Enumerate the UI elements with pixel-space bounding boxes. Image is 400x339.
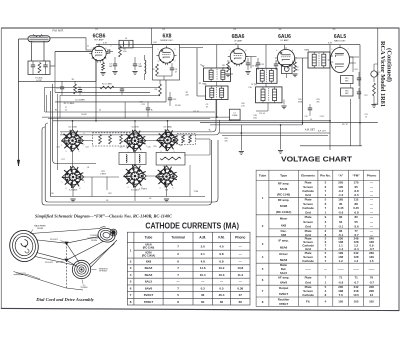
svg-text:C1: C1 (87, 46, 89, 48)
svg-text:2: 2 (276, 61, 277, 63)
svg-text:T3: T3 (202, 84, 204, 86)
svg-text:2: 2 (230, 61, 231, 63)
svg-text:47: 47 (206, 106, 208, 108)
wire socket links (196, 138, 211, 140)
resistor R18 (373, 83, 376, 96)
tube V3 6BA6 (230, 49, 246, 65)
cathode currents body text (130, 244, 244, 304)
wire v x151.5 (151, 29, 153, 45)
svg-text:V-3 6BA6: V-3 6BA6 (163, 126, 172, 129)
svg-text:3: 3 (128, 152, 129, 154)
wire v x125 (124, 102, 126, 119)
svg-text:7: 7 (348, 49, 349, 51)
cap at 122 (120, 88, 124, 90)
wire y92 (55, 91, 150, 93)
svg-text:2: 2 (61, 133, 62, 135)
V2 shield box (153, 45, 180, 81)
svg-text:Output: Output (279, 286, 289, 290)
svg-text:R19: R19 (153, 146, 156, 148)
cap under bus 2 (308, 107, 312, 109)
svg-text:C13 .02: C13 .02 (193, 111, 199, 113)
resistor R8 (227, 62, 230, 72)
svg-text:5: 5 (142, 152, 143, 154)
svg-text:Dial Cord and Drive Assembly: Dial Cord and Drive Assembly (35, 297, 94, 302)
svg-text:—: — (239, 260, 242, 264)
svg-text:R.F. AMP: R.F. AMP (94, 39, 104, 42)
capacitor C5 cluster (60, 86, 64, 88)
wire V4 top (284, 45, 286, 50)
wire y145.8 (300, 145, 362, 147)
svg-text:Phono: Phono (235, 236, 245, 240)
svg-text:6CB6: 6CB6 (280, 204, 288, 208)
bus line y134.9 (60, 134, 215, 136)
svg-text:PULLEYS: PULLEYS (16, 273, 26, 275)
svg-text:80: 80 (354, 215, 358, 219)
svg-text:Simplified Schematic Diagram—“: Simplified Schematic Diagram—“FM”—Chassi… (35, 213, 172, 218)
svg-text:6AV6: 6AV6 (145, 286, 153, 290)
ground below R3 (100, 72, 105, 74)
svg-text:6AU6: 6AU6 (278, 34, 291, 40)
tuning shaft line (65, 243, 67, 288)
svg-text:C19 2: C19 2 (320, 116, 325, 118)
svg-text:—: — (177, 280, 180, 284)
svg-text:Plate: Plate (305, 198, 312, 202)
svg-text:4.8: 4.8 (201, 260, 206, 264)
svg-text:——: —— (353, 267, 359, 271)
svg-text:—: — (201, 280, 204, 284)
bus y132 rounded (42, 127, 212, 205)
svg-text:RCA Victor Model 1R81: RCA Victor Model 1R81 (379, 41, 386, 107)
svg-text:VOLTAGE CHART: VOLTAGE CHART (281, 155, 352, 164)
tube V5 6AL5 envelope (330, 48, 349, 73)
svg-text:C6: C6 (99, 110, 101, 112)
svg-text:C27: C27 (61, 159, 64, 161)
svg-text:—: — (370, 211, 373, 215)
dial cord run 4 (35, 257, 77, 266)
wire T5 down (267, 103, 269, 111)
ground x241 (240, 125, 242, 151)
bus y135 (45, 123, 218, 202)
ratio det transformer T6 (308, 52, 330, 68)
page frame right border (398, 28, 400, 311)
resistor R1A (38, 63, 41, 74)
svg-text:(RC-1140): (RC-1140) (143, 246, 155, 249)
svg-text:55: 55 (354, 220, 358, 224)
svg-text:R3 1.5 MEG: R3 1.5 MEG (64, 103, 75, 105)
svg-text:6AV6: 6AV6 (280, 281, 287, 285)
svg-text:—: — (239, 244, 242, 248)
wire v x96 (95, 60, 97, 120)
svg-text:6BA6: 6BA6 (145, 273, 153, 277)
svg-text:4: 4 (66, 188, 67, 190)
svg-text:0.45: 0.45 (338, 206, 344, 210)
resistor R6 under V2 (159, 84, 162, 96)
svg-text:-0.6: -0.6 (338, 281, 343, 285)
capacitor C3 (113, 63, 117, 65)
svg-text:Type: Type (280, 174, 287, 178)
ground x280 (280, 125, 282, 150)
bus y124.9 (210, 124, 303, 126)
wire T2 to V3 (231, 73, 234, 75)
svg-text:6T8GT: 6T8GT (279, 302, 288, 306)
AVC line (19, 80, 97, 82)
vertical page title RCA Victor Model 1R81 (379, 41, 393, 107)
page frame top border (2, 27, 400, 29)
resistor R11 (294, 62, 297, 72)
svg-text:C23: C23 (56, 147, 59, 149)
svg-text:—: — (239, 280, 242, 284)
svg-text:C14: C14 (228, 120, 231, 122)
svg-text:Grid: Grid (305, 281, 311, 285)
svg-text:F.M.: F.M. (218, 236, 224, 240)
svg-text:10.4: 10.4 (200, 273, 206, 277)
svg-text:Terminal: Terminal (171, 236, 185, 240)
svg-text:6T8GT: 6T8GT (144, 300, 154, 304)
svg-text:10.2: 10.2 (219, 266, 225, 270)
capacitor C10 under V2 (168, 97, 172, 99)
svg-text:100: 100 (296, 69, 299, 71)
svg-text:6X8: 6X8 (281, 223, 287, 227)
svg-text:DRUM: DRUM (37, 228, 43, 230)
svg-text:Grid: Grid (305, 211, 311, 215)
svg-text:C13: C13 (260, 64, 263, 66)
svg-text:1: 1 (62, 182, 63, 184)
svg-text:5: 5 (106, 58, 107, 60)
svg-text:“A”: “A” (338, 174, 344, 178)
svg-text:PULLEY: PULLEY (45, 262, 54, 264)
svg-text:6CB6: 6CB6 (93, 33, 106, 39)
svg-text:6: 6 (106, 48, 107, 50)
V5 pin leads (339, 45, 341, 48)
svg-text:RF amp.: RF amp. (278, 181, 290, 185)
svg-text:6V6GT: 6V6GT (144, 293, 154, 297)
wire x330 v (329, 45, 331, 150)
svg-text:R22: R22 (108, 193, 111, 195)
svg-text:64: 64 (339, 220, 343, 224)
svg-text:6AL5: 6AL5 (334, 34, 346, 40)
center cord spiral (72, 260, 90, 278)
svg-text:4: 4 (160, 188, 161, 190)
spring hook top right (100, 227, 106, 229)
svg-text:11.6: 11.6 (200, 266, 206, 270)
svg-text:60: 60 (201, 300, 205, 304)
svg-text:3: 3 (161, 151, 162, 153)
svg-text:7: 7 (99, 44, 100, 46)
svg-text:R5: R5 (152, 69, 154, 71)
svg-text:C19: C19 (304, 116, 307, 118)
svg-text:Cathode: Cathode (302, 206, 314, 210)
svg-text:5: 5 (292, 61, 293, 63)
svg-text:11.2: 11.2 (237, 273, 243, 277)
svg-text:C11: C11 (139, 102, 142, 104)
svg-text:(RC-1140A): (RC-1140A) (142, 254, 156, 257)
dial cord cross 1 (66, 243, 79, 263)
svg-text:T1: T1 (235, 43, 237, 45)
svg-text:3: 3 (66, 151, 67, 153)
resistor R3 below V1 (102, 63, 105, 71)
svg-text:2: 2 (92, 58, 93, 60)
svg-text:9: 9 (175, 49, 176, 51)
svg-text:36: 36 (201, 293, 205, 297)
svg-text:.05: .05 (106, 200, 109, 202)
svg-text:1.5: 1.5 (369, 259, 373, 263)
capacitor C7 (170, 67, 174, 69)
svg-text:.01: .01 (310, 119, 312, 121)
svg-text:——: —— (369, 267, 375, 271)
svg-text:AF amp.: AF amp. (278, 276, 290, 280)
svg-text:2: 2 (332, 67, 333, 69)
wire V5 right (350, 56, 359, 58)
svg-text:Phono: Phono (367, 174, 377, 178)
svg-text:V-4 6AU6: V-4 6AU6 (69, 189, 78, 192)
svg-text:71: 71 (339, 276, 343, 280)
antenna lead arrowhead (17, 160, 19, 166)
wire x378 v (377, 28, 379, 105)
cord to condenser (90, 244, 115, 265)
dial cord cross 2 (66, 260, 78, 267)
svg-text:4.7 MEG: 4.7 MEG (139, 189, 147, 191)
electrolytic C22 (371, 71, 377, 77)
svg-text:6AL5: 6AL5 (145, 280, 153, 284)
tube V2 6X8 (159, 48, 174, 63)
svg-text:0.36: 0.36 (237, 286, 243, 290)
svg-text:1.2: 1.2 (339, 259, 343, 263)
svg-text:5: 5 (174, 151, 175, 153)
leader 3.25 turns (82, 280, 83, 284)
svg-text:6: 6 (80, 188, 81, 190)
svg-text:5: 5 (378, 74, 379, 76)
pulley 2 (64, 259, 68, 263)
svg-text:6: 6 (292, 50, 293, 52)
wire V3 to T4 (245, 56, 256, 58)
svg-text:A.M. DET.: A.M. DET. (305, 129, 316, 132)
resistor R5 (156, 64, 159, 76)
svg-text:12: 12 (370, 293, 374, 297)
mid box D (156, 152, 185, 165)
socket V5 6AL5 (124, 165, 146, 187)
capacitor C4 (133, 63, 137, 65)
IF can T2 (204, 68, 231, 82)
svg-text:T4: T4 (251, 84, 253, 86)
wire v x46 (45, 95, 47, 112)
svg-text:Plate: Plate (305, 276, 312, 280)
svg-text:.01: .01 (65, 109, 67, 111)
wire ratio T to V5 (330, 55, 333, 57)
dial cord run 2 (38, 240, 67, 243)
choke box under T3 (229, 109, 240, 120)
wire V1 grid (50, 65, 55, 67)
wire y95.3 (60, 94, 160, 96)
svg-text:6X8: 6X8 (281, 233, 287, 237)
svg-text:10MH: 10MH (232, 115, 238, 117)
svg-text:R17 1K: R17 1K (342, 124, 349, 126)
wire y87.5 (44, 87, 160, 89)
page frame bottom border (1, 308, 399, 310)
svg-text:6BA6: 6BA6 (145, 266, 153, 270)
svg-text:6BA6: 6BA6 (232, 34, 245, 40)
svg-text:SPRING: SPRING (99, 271, 107, 273)
svg-text:Fil.: Fil. (306, 300, 310, 304)
svg-text:V-2 6X8: V-2 6X8 (131, 127, 139, 129)
svg-text:—: — (370, 215, 373, 219)
wire x350 down (349, 99, 351, 146)
svg-text:10.3: 10.3 (219, 273, 225, 277)
svg-text:Cathode: Cathode (302, 259, 314, 263)
wire antenna to V1 grid (50, 38, 92, 50)
svg-text:R17: R17 (364, 95, 367, 97)
capacitor C13 under V3 (256, 62, 260, 64)
svg-text:(RC-1140A): (RC-1140A) (276, 210, 291, 214)
svg-text:7: 7 (84, 182, 85, 184)
bus line y131.9 (60, 131, 212, 133)
svg-text:9.8: 9.8 (219, 252, 224, 256)
wire row2 h (81, 176, 119, 178)
tuning condenser drum (97, 227, 117, 244)
svg-text:B+: B+ (151, 110, 153, 112)
capacitor C2 (107, 49, 109, 53)
svg-text:“FM”: “FM” (352, 174, 360, 178)
svg-text:Cathode: Cathode (302, 293, 314, 297)
socket V2 6X8 (124, 130, 146, 152)
svg-text:0.45: 0.45 (353, 206, 359, 210)
ground under S4 (70, 198, 75, 200)
svg-text:-0.7: -0.7 (354, 281, 359, 285)
page frame left border (0, 28, 2, 308)
svg-text:165: 165 (338, 198, 343, 202)
svg-text:C16: C16 (248, 87, 251, 89)
svg-text:0.5: 0.5 (219, 286, 224, 290)
dial drive drum (7, 228, 41, 264)
svg-text:C30: C30 (50, 193, 53, 195)
svg-text:3: 3 (158, 61, 159, 63)
svg-text:1.5K: 1.5K (122, 51, 127, 53)
svg-text:2.0: 2.0 (201, 244, 206, 248)
svg-text:6: 6 (142, 187, 143, 189)
voltage chart body text (262, 181, 375, 306)
osc coil L4 (145, 60, 146, 74)
svg-text:TURNS: TURNS (80, 287, 88, 289)
svg-text:I.F. AMP: I.F. AMP (280, 39, 289, 42)
svg-text:IF amp.: IF amp. (279, 238, 289, 242)
svg-text:2: 2 (111, 46, 112, 48)
wire S2 to S5 (134, 150, 136, 167)
svg-text:——: —— (338, 267, 344, 271)
svg-text:C16 .05: C16 .05 (259, 113, 265, 115)
svg-text:105: 105 (338, 300, 343, 304)
svg-text:—: — (370, 198, 373, 202)
svg-text:R4 470: R4 470 (81, 114, 87, 116)
wire v x197 (196, 48, 198, 96)
arrow marks tubes (94, 48, 96, 50)
svg-text:1: 1 (230, 50, 231, 52)
svg-text:Plate: Plate (305, 215, 312, 219)
svg-text:6.8: 6.8 (219, 260, 224, 264)
bus right segment (220, 132, 331, 134)
svg-text:1: 1 (276, 50, 277, 52)
wire osc section (157, 75, 172, 77)
svg-text:R9: R9 (199, 83, 201, 85)
junctions row (72, 120, 74, 122)
wire S4 drop (72, 185, 74, 197)
svg-text:RATIO DET.: RATIO DET. (334, 39, 346, 42)
svg-text:2.1: 2.1 (201, 252, 206, 256)
svg-text:T3: T3 (252, 66, 254, 68)
svg-text:—: — (370, 206, 373, 210)
pulley 1 (64, 242, 68, 246)
resistor R4 cluster (74, 84, 77, 94)
bus y122.7 (200, 122, 378, 124)
svg-text:.005: .005 (253, 117, 257, 119)
svg-text:R9 10K: R9 10K (175, 105, 182, 107)
svg-text:6: 6 (246, 50, 247, 52)
cathode currents table frame (127, 232, 250, 305)
svg-text:C10: C10 (173, 99, 176, 101)
wire V2 down x166 (165, 80, 167, 102)
svg-text:35.4: 35.4 (219, 293, 225, 297)
svg-text:Tube: Tube (259, 174, 266, 178)
AM loop terminal box (28, 61, 50, 75)
wire T4 T5 link (265, 83, 267, 87)
svg-text:Rectifier: Rectifier (278, 297, 290, 301)
svg-text:66: 66 (239, 300, 243, 304)
svg-text:82: 82 (339, 215, 343, 219)
resistor ladder R15 (341, 76, 353, 84)
svg-text:6: 6 (84, 133, 85, 135)
mid box C (119, 152, 146, 164)
svg-text:——: —— (305, 267, 311, 271)
IF can T4 (257, 68, 278, 83)
capacitor C12 (246, 62, 250, 64)
drum hub (21, 240, 28, 247)
dial cord top run (31, 229, 100, 234)
tube V1 6CB6 (92, 46, 106, 60)
IF can T5 (256, 87, 282, 103)
svg-text:CATHODE CURRENTS (MA): CATHODE CURRENTS (MA) (145, 221, 239, 230)
svg-text:-0.8: -0.8 (354, 211, 359, 215)
svg-text:Screen: Screen (303, 220, 313, 224)
svg-text:115: 115 (354, 198, 359, 202)
svg-text:Tube: Tube (145, 236, 153, 240)
wire bus y47.6 (120, 47, 153, 49)
svg-text:R20: R20 (179, 145, 182, 147)
FM section enclosure (51, 91, 206, 197)
svg-text:105: 105 (369, 300, 374, 304)
socket V3 6BA6 (157, 130, 178, 151)
capacitor C21 (357, 91, 361, 93)
socket V6 6AV6 (156, 166, 177, 187)
capacitor C20 (357, 77, 361, 79)
svg-text:270K: 270K (194, 191, 199, 193)
svg-text:6BA6: 6BA6 (280, 258, 288, 262)
svg-text:4.0: 4.0 (219, 244, 224, 248)
wire antenna left lead (19, 38, 29, 40)
capacitor C15 (274, 63, 278, 65)
svg-text:5: 5 (348, 67, 349, 69)
svg-text:C6 .05MFD: C6 .05MFD (75, 100, 86, 102)
dashed coil box B (177, 134, 196, 145)
svg-text:C24: C24 (85, 147, 88, 149)
svg-text:6AU6: 6AU6 (280, 187, 288, 191)
ground V4 cathode (281, 105, 286, 107)
svg-text:1 MEG: 1 MEG (100, 173, 106, 175)
voltage chart table frame (256, 170, 379, 306)
svg-text:—: — (220, 280, 223, 284)
svg-text:R6: R6 (155, 89, 157, 91)
svg-text:470K: 470K (298, 101, 303, 103)
coil L3 between V1 V2 (119, 40, 133, 48)
svg-text:10: 10 (365, 116, 367, 118)
svg-text:PULLEY: PULLEY (50, 239, 59, 241)
